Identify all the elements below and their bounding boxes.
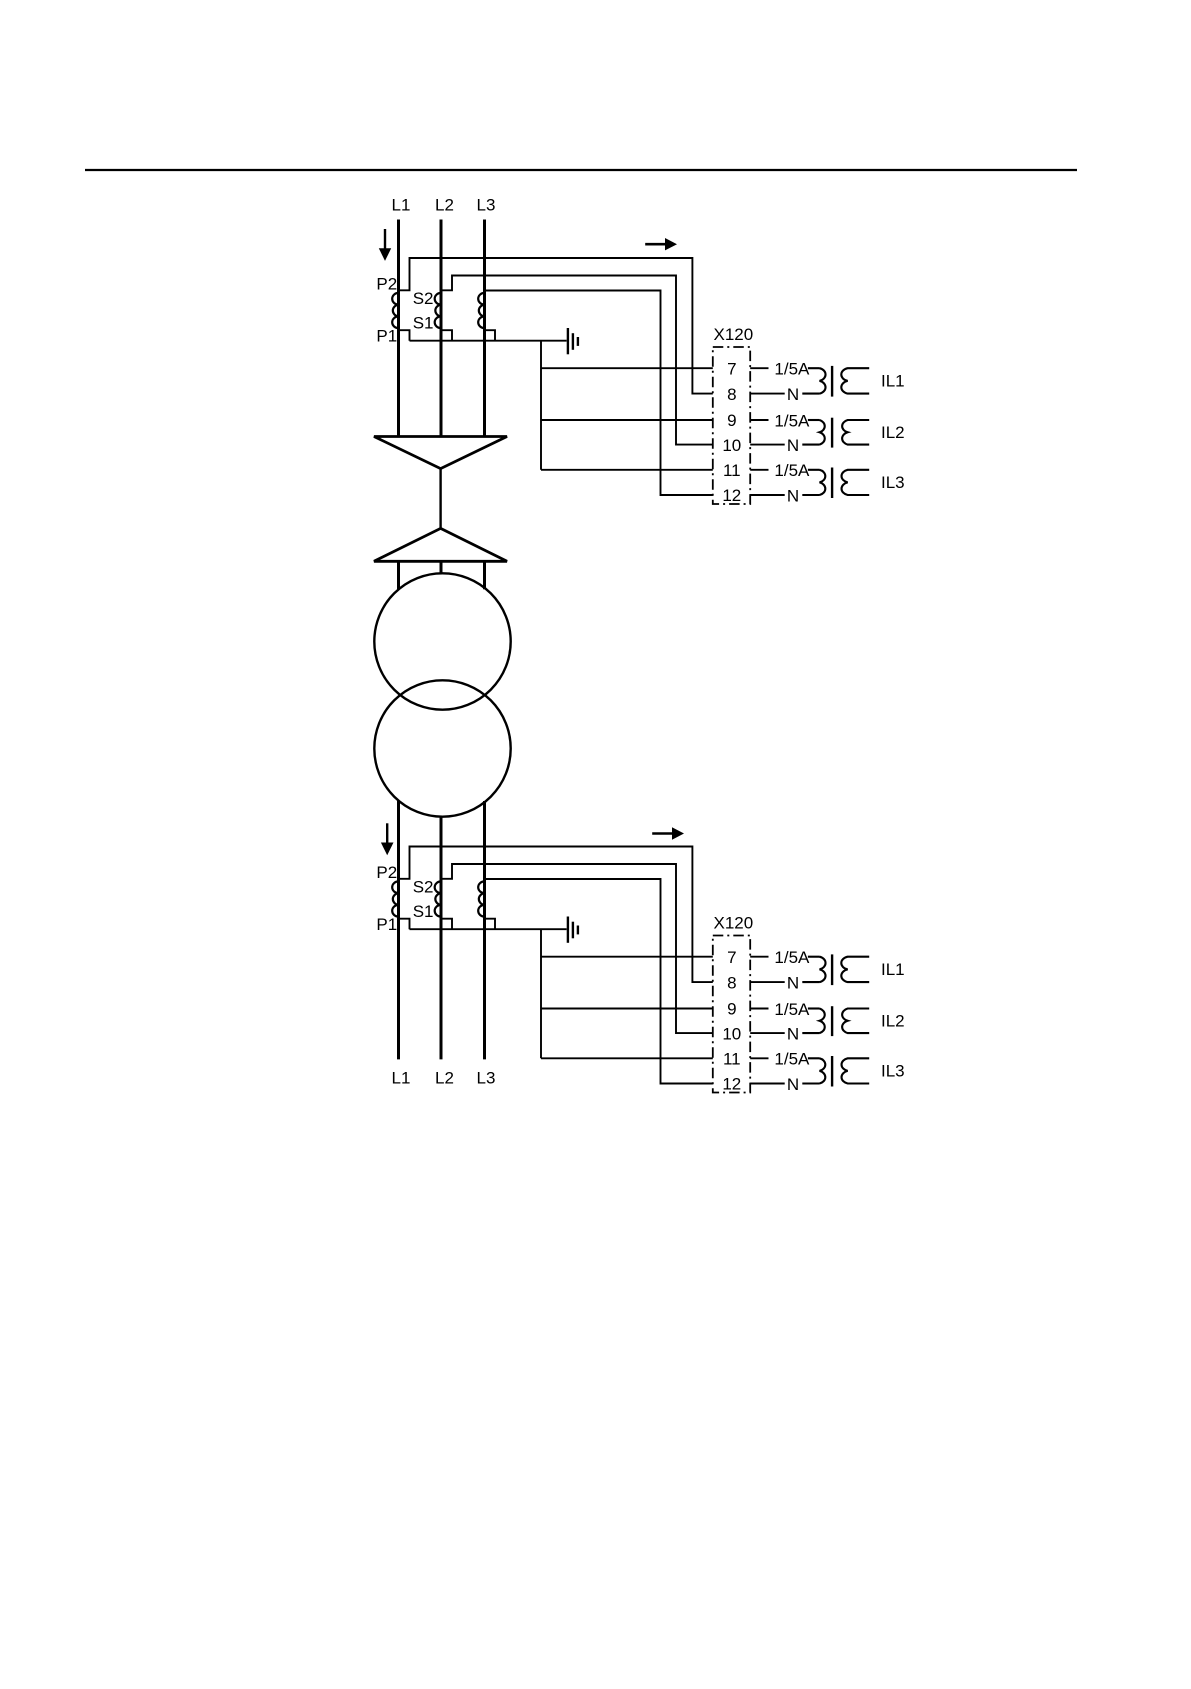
wire neutral bus drop (top) bbox=[540, 341, 542, 470]
wire N to IL1 input winding (top) bbox=[802, 393, 819, 395]
input transformer IL2 secondary winding (top) bbox=[842, 420, 869, 445]
svg-text:P2: P2 bbox=[376, 274, 397, 293]
page header rule bbox=[85, 169, 1077, 171]
svg-text:11: 11 bbox=[723, 1050, 741, 1069]
arrowhead: primary current direction (bottom) bbox=[381, 843, 394, 856]
wire N to IL3 input winding (top) bbox=[802, 494, 819, 496]
svg-text:1/5A: 1/5A bbox=[774, 1050, 810, 1069]
wire N to IL3 input winding (bottom) bbox=[802, 1082, 819, 1084]
svg-text:X120: X120 bbox=[714, 913, 754, 932]
svg-text:N: N bbox=[787, 385, 799, 404]
svg-text:10: 10 bbox=[722, 436, 741, 455]
wire neutral to X120 terminal 7 (bottom) bbox=[541, 956, 713, 958]
terminal 8 stub wire (top) bbox=[750, 393, 785, 395]
input transformer IL2 core (top) bbox=[831, 418, 833, 448]
input transformer IL1 secondary winding (bottom) bbox=[841, 957, 869, 982]
input transformer IL1 core (top) bbox=[831, 366, 833, 397]
wire neutral to X120 terminal 11 (top) bbox=[541, 469, 713, 471]
CT T3 secondary winding arcs (bottom) bbox=[478, 881, 484, 916]
arrow shaft: primary current direction (top) bbox=[384, 229, 386, 249]
wire L2 phase conductor (bottom) bbox=[440, 817, 443, 1060]
wire 1/5A to IL2 input winding (bottom) bbox=[808, 1007, 820, 1009]
arrowhead: secondary current direction (top) bbox=[665, 238, 677, 250]
wire S1 common bus to earth (bottom) bbox=[410, 928, 567, 930]
input transformer IL2 core (bottom) bbox=[831, 1006, 833, 1036]
CT T1 secondary winding arcs (top) bbox=[392, 293, 398, 328]
wire 1/5A to IL3 input winding (top) bbox=[808, 469, 820, 471]
input transformer IL1 secondary winding (top) bbox=[841, 368, 869, 393]
terminal block X120 outline (bottom) bbox=[713, 936, 750, 1093]
svg-text:1/5A: 1/5A bbox=[774, 461, 810, 480]
svg-text:IL1: IL1 bbox=[881, 960, 905, 979]
terminal 7 stub wire (bottom) bbox=[750, 956, 768, 958]
wire L1 phase conductor (bottom) bbox=[397, 801, 400, 1059]
input transformer IL2 primary winding (bottom) bbox=[820, 1009, 825, 1034]
wire CT3 S2 to X120 terminal 12 (top) bbox=[485, 291, 713, 496]
wire CT3 S1 step (bottom) bbox=[485, 919, 496, 930]
wire CT2 S2 to X120 terminal 10 (top) bbox=[441, 276, 713, 445]
input transformer IL1 primary winding (bottom) bbox=[820, 957, 826, 982]
wire stub L1 into transformer bbox=[397, 561, 400, 589]
wire neutral to X120 terminal 11 (bottom) bbox=[541, 1057, 713, 1059]
arrowhead: secondary current direction (bottom) bbox=[672, 827, 684, 839]
terminal 10 stub wire (top) bbox=[750, 444, 785, 446]
svg-text:11: 11 bbox=[723, 461, 741, 480]
svg-text:9: 9 bbox=[727, 1000, 736, 1019]
svg-text:1/5A: 1/5A bbox=[774, 948, 810, 967]
svg-text:IL3: IL3 bbox=[881, 1062, 905, 1081]
wire L3 phase conductor (top) bbox=[483, 220, 486, 437]
CT T1 secondary winding arcs (bottom) bbox=[392, 881, 398, 916]
arrow shaft: primary current direction (bottom) bbox=[386, 823, 388, 843]
svg-text:L3: L3 bbox=[477, 196, 496, 215]
terminal 9 stub wire (top) bbox=[750, 419, 768, 421]
wire S1 common bus to earth (top) bbox=[410, 340, 567, 342]
wire N to IL2 input winding (bottom) bbox=[802, 1032, 819, 1034]
input transformer IL2 primary winding (top) bbox=[820, 420, 825, 445]
svg-text:N: N bbox=[787, 436, 799, 455]
arrow shaft: secondary current direction (top) bbox=[645, 243, 665, 246]
svg-text:P2: P2 bbox=[376, 863, 397, 882]
wire CT1 S2 to X120 terminal 8 (top) bbox=[399, 258, 713, 394]
svg-text:L3: L3 bbox=[477, 1069, 496, 1088]
wire CT3 S1 step (top) bbox=[485, 330, 496, 341]
CT T3 secondary winding arcs (top) bbox=[478, 293, 484, 328]
wire neutral bus drop (bottom) bbox=[540, 929, 542, 1058]
wire CT1 S1 step (top) bbox=[399, 330, 410, 341]
terminal 11 stub wire (top) bbox=[750, 469, 768, 471]
wire stub L2 into transformer bbox=[440, 561, 443, 573]
svg-text:S1: S1 bbox=[413, 313, 434, 332]
terminal 9 stub wire (bottom) bbox=[750, 1008, 768, 1010]
svg-text:1/5A: 1/5A bbox=[774, 360, 810, 379]
input transformer IL1 core (bottom) bbox=[831, 954, 833, 985]
terminal 12 stub wire (bottom) bbox=[750, 1083, 785, 1085]
svg-text:N: N bbox=[787, 486, 799, 505]
svg-text:12: 12 bbox=[722, 486, 741, 505]
wire neutral to X120 terminal 7 (top) bbox=[541, 367, 713, 369]
ground symbol bar 2 (top) bbox=[572, 333, 574, 350]
CT T2 secondary winding arcs (top) bbox=[435, 293, 441, 328]
wire L3 phase conductor (bottom) bbox=[483, 801, 486, 1059]
wire CT2 S2 to X120 terminal 10 (bottom) bbox=[441, 864, 713, 1033]
wire 1/5A to IL2 input winding (top) bbox=[808, 419, 820, 421]
svg-text:L2: L2 bbox=[435, 1069, 454, 1088]
svg-text:L1: L1 bbox=[392, 1069, 411, 1088]
svg-text:X120: X120 bbox=[714, 325, 754, 344]
svg-text:7: 7 bbox=[727, 948, 736, 967]
wire neutral to X120 terminal 9 (top) bbox=[541, 419, 713, 421]
svg-text:L1: L1 bbox=[392, 196, 411, 215]
ground symbol bar 1 (top) bbox=[567, 328, 569, 354]
svg-text:1/5A: 1/5A bbox=[774, 1000, 810, 1019]
svg-text:N: N bbox=[787, 1075, 799, 1094]
input transformer IL3 core (top) bbox=[831, 468, 833, 499]
wire L1 phase conductor (top) bbox=[397, 220, 400, 437]
wire N to IL1 input winding (bottom) bbox=[802, 981, 819, 983]
wire 1/5A to IL1 input winding (top) bbox=[808, 367, 820, 369]
svg-text:12: 12 bbox=[722, 1075, 741, 1094]
terminal block X120 outline (top) bbox=[713, 347, 750, 504]
input transformer IL3 primary winding (bottom) bbox=[820, 1058, 826, 1083]
svg-text:S2: S2 bbox=[413, 289, 434, 308]
wire N to IL2 input winding (top) bbox=[802, 444, 819, 446]
wire CT2 S1 step (bottom) bbox=[441, 919, 452, 930]
svg-text:IL1: IL1 bbox=[881, 372, 905, 391]
transformer arrow symbol (upright triangle) bbox=[374, 528, 507, 561]
input transformer IL1 primary winding (top) bbox=[820, 368, 826, 393]
svg-text:L2: L2 bbox=[435, 196, 454, 215]
wire 1/5A to IL1 input winding (bottom) bbox=[808, 956, 820, 958]
svg-text:8: 8 bbox=[727, 973, 736, 992]
svg-text:7: 7 bbox=[727, 359, 736, 378]
svg-text:N: N bbox=[787, 974, 799, 993]
wire L2 phase conductor (top) bbox=[440, 220, 443, 437]
terminal 11 stub wire (bottom) bbox=[750, 1057, 768, 1059]
wire CT1 S1 step (bottom) bbox=[399, 919, 410, 930]
svg-text:IL2: IL2 bbox=[881, 1012, 905, 1031]
arrowhead: primary current direction (top) bbox=[379, 248, 391, 261]
ground symbol bar 2 (bottom) bbox=[572, 922, 574, 939]
wire CT1 S2 to X120 terminal 8 (bottom) bbox=[399, 847, 713, 983]
svg-text:IL2: IL2 bbox=[881, 423, 905, 442]
ground symbol bar 3 (top) bbox=[577, 337, 579, 346]
input transformer IL3 primary winding (top) bbox=[820, 470, 826, 495]
svg-text:S1: S1 bbox=[413, 902, 434, 921]
wire CT3 S2 to X120 terminal 12 (bottom) bbox=[485, 879, 713, 1084]
CT T2 secondary winding arcs (bottom) bbox=[435, 881, 441, 916]
svg-text:10: 10 bbox=[722, 1024, 741, 1043]
wire stub L3 into transformer bbox=[483, 561, 486, 589]
input transformer IL3 secondary winding (bottom) bbox=[842, 1058, 870, 1083]
svg-text:S2: S2 bbox=[413, 877, 434, 896]
svg-text:IL3: IL3 bbox=[881, 473, 905, 492]
input transformer IL3 secondary winding (top) bbox=[842, 470, 870, 495]
transformer feeder delta symbol (inverted triangle) bbox=[374, 437, 507, 469]
input transformer IL2 secondary winding (bottom) bbox=[842, 1009, 869, 1034]
svg-text:P1: P1 bbox=[376, 915, 397, 934]
wire link between symbols bbox=[439, 469, 441, 529]
ground symbol bar 3 (bottom) bbox=[577, 926, 579, 935]
svg-text:P1: P1 bbox=[376, 327, 397, 346]
input transformer IL3 core (bottom) bbox=[831, 1056, 833, 1087]
transformer LV winding circle bbox=[374, 680, 510, 816]
arrow shaft: secondary current direction (bottom) bbox=[652, 832, 672, 835]
svg-text:9: 9 bbox=[727, 411, 736, 430]
terminal 8 stub wire (bottom) bbox=[750, 981, 785, 983]
wire neutral to X120 terminal 9 (bottom) bbox=[541, 1008, 713, 1010]
terminal 7 stub wire (top) bbox=[750, 367, 768, 369]
svg-text:N: N bbox=[787, 1025, 799, 1044]
terminal 12 stub wire (top) bbox=[750, 494, 785, 496]
wire 1/5A to IL3 input winding (bottom) bbox=[808, 1057, 820, 1059]
wire CT2 S1 step (top) bbox=[441, 330, 452, 341]
svg-text:8: 8 bbox=[727, 385, 736, 404]
terminal 10 stub wire (bottom) bbox=[750, 1032, 785, 1034]
transformer HV winding circle bbox=[374, 573, 510, 709]
ground symbol bar 1 (bottom) bbox=[567, 917, 569, 943]
svg-text:1/5A: 1/5A bbox=[774, 411, 810, 430]
